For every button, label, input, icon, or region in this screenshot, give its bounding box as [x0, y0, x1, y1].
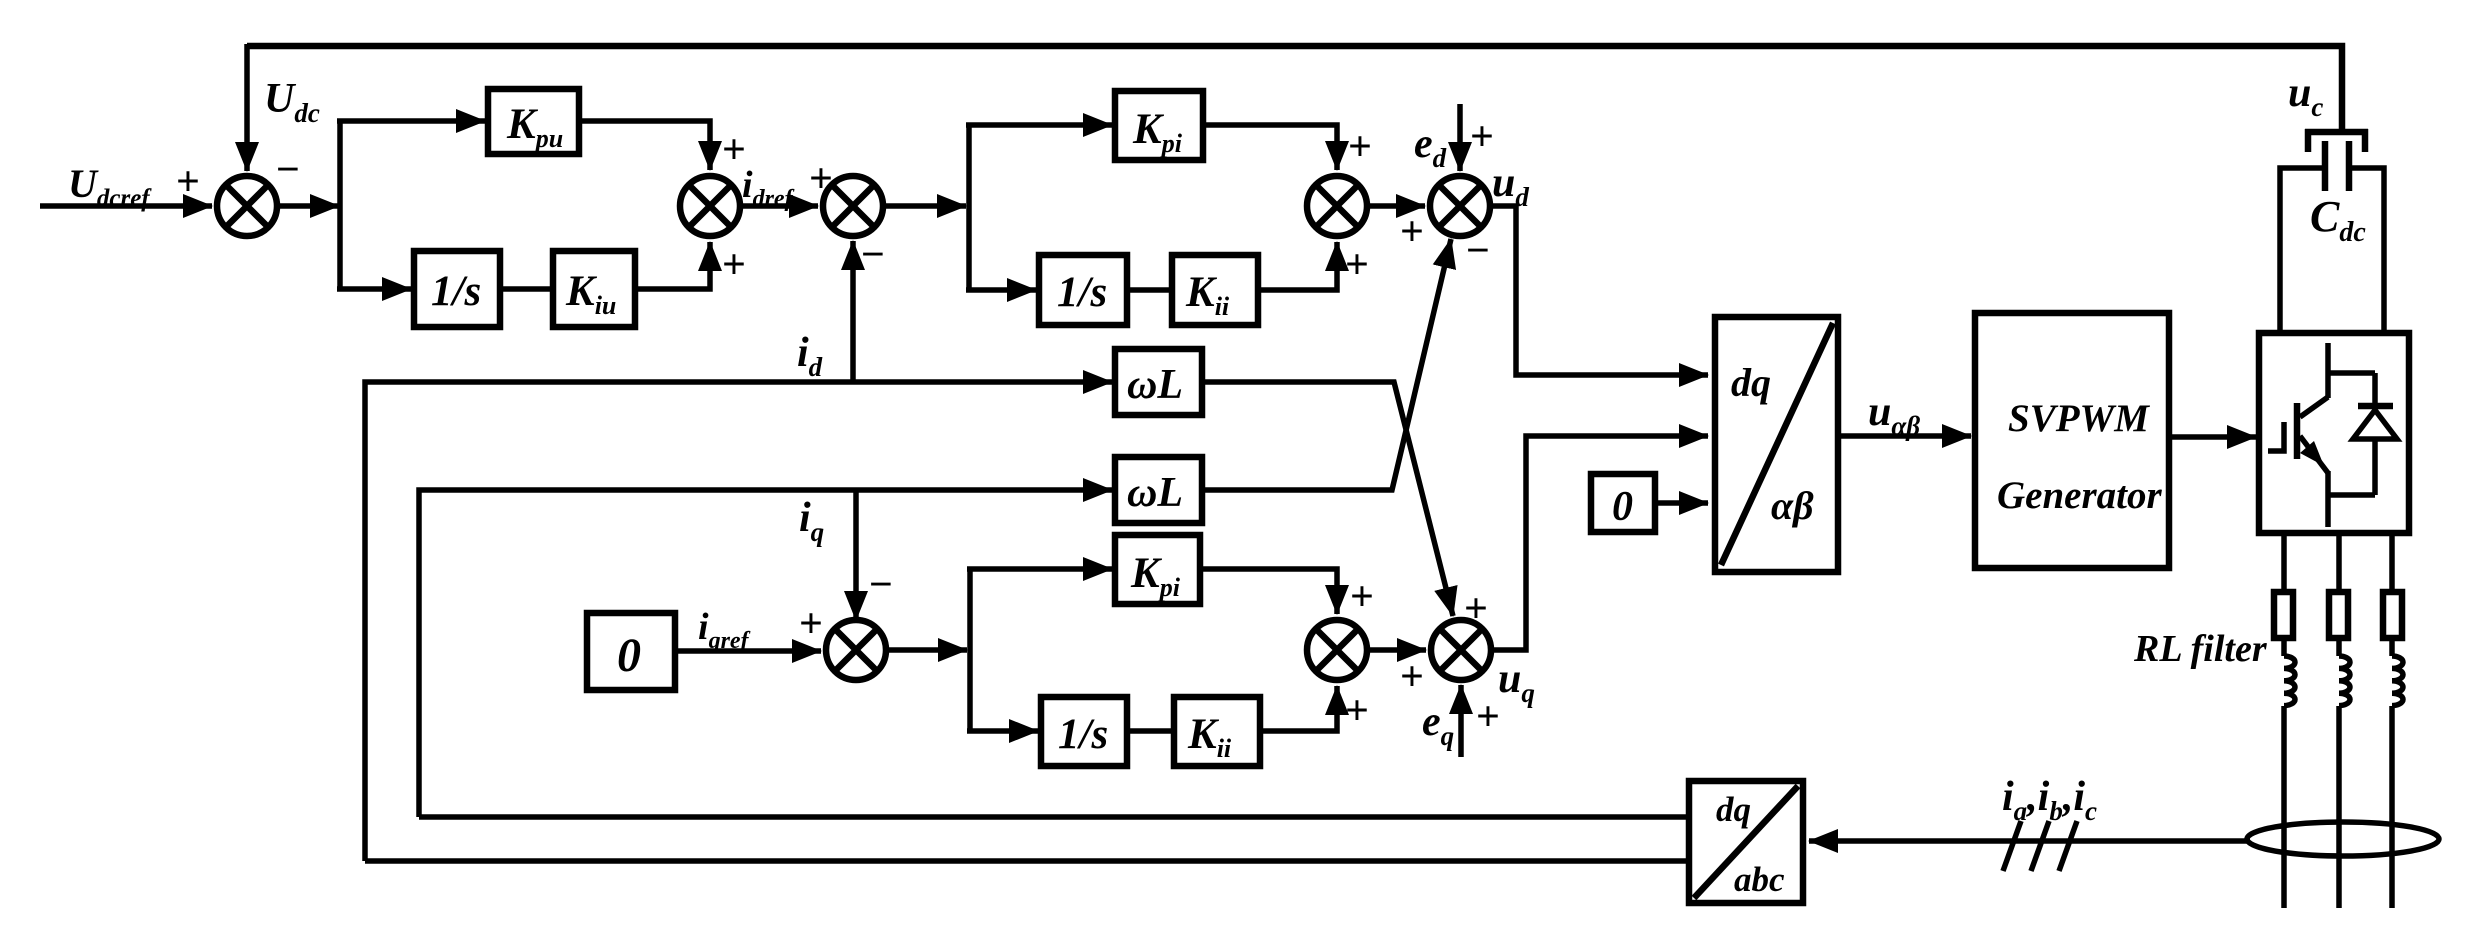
block SVPWM Generator — [1975, 313, 2169, 568]
wire Kii q output into S7 — [1260, 686, 1337, 731]
svg-text:dq: dq — [1731, 360, 1771, 405]
capacitor sense bracket — [2305, 129, 2368, 152]
wire branch to Kpu — [337, 118, 485, 124]
wire wL2 output diagonal into S5 — [1202, 239, 1451, 490]
wire q branch to 1/s q — [967, 728, 1038, 734]
wire d branch to 1/s — [966, 287, 1036, 293]
svg-text:−: − — [276, 147, 300, 193]
wire S2 output to S3 (idref) — [740, 203, 818, 209]
summing junction S3 — [823, 176, 883, 236]
svg-text:+: + — [1345, 242, 1369, 288]
svg-text:+: + — [1470, 114, 1494, 160]
wire phase leg c — [2389, 533, 2395, 594]
svg-text:+: + — [1350, 574, 1374, 620]
wire 1/s to Kiu — [500, 286, 553, 292]
wire U_dcref input arrow — [40, 203, 212, 209]
summing junction S6 — [826, 620, 886, 680]
wire S8 output up to dq block — [1491, 436, 1708, 650]
svg-text:+: + — [176, 159, 200, 205]
svg-text:+: + — [1476, 694, 1500, 740]
wire 1/s to Kii q — [1127, 728, 1174, 734]
block Kpi (d axis) — [1115, 91, 1203, 160]
wire S7 output to S8 — [1367, 647, 1426, 653]
svg-text:+: + — [1400, 209, 1424, 255]
svg-text:RL filter: RL filter — [2133, 628, 2268, 670]
wire resistor to inductor b — [2336, 638, 2342, 656]
diode D1 — [2328, 373, 2397, 495]
wire q branch to Kpi q — [967, 566, 1112, 572]
block theta reference — [1591, 474, 1655, 532]
wire dq abc lower output to id loop — [365, 858, 1689, 864]
wire Kpi output into S4 — [1203, 125, 1337, 170]
svg-text:1/s: 1/s — [431, 268, 481, 315]
svg-text:+: + — [722, 242, 746, 288]
svg-text:+: + — [799, 601, 823, 647]
block inverter bridge — [2259, 333, 2409, 533]
summing junction S4 — [1307, 176, 1367, 236]
wire eq input up into S8 — [1458, 685, 1464, 757]
svg-text:+: + — [1348, 124, 1372, 170]
svg-text:Generator: Generator — [1997, 474, 2162, 517]
block wL1 — [1115, 349, 1202, 415]
resistor Rb — [2329, 592, 2348, 638]
wire u_alphabeta to SVPWM — [1838, 433, 1971, 439]
wire d branch to Kpi — [966, 122, 1112, 128]
block wL2 — [1115, 457, 1202, 523]
wire S4 output to S5 — [1367, 203, 1425, 209]
wire top feedback uc line — [247, 46, 2342, 131]
wire dc bus right — [2349, 168, 2384, 336]
wire resistor to inductor a — [2281, 638, 2287, 656]
wire Kpu output into S2 — [579, 121, 710, 170]
svg-text:1/s: 1/s — [1058, 711, 1108, 758]
svg-text:αβ: αβ — [1771, 483, 1814, 528]
wire iq feedback row into wL2 — [419, 490, 1112, 817]
svg-text:abc: abc — [1734, 860, 1785, 899]
wire grid leg c — [2389, 706, 2395, 908]
resistor Rc — [2383, 592, 2402, 638]
wire current sense to dq abc — [1809, 838, 2250, 844]
wire dc bus left — [2280, 168, 2325, 336]
svg-text:ωL: ωL — [1127, 362, 1183, 408]
wire branch to 1/s — [337, 286, 411, 292]
wire branch vertical — [337, 121, 343, 289]
svg-text:SVPWM: SVPWM — [2008, 397, 2150, 440]
inductor Lb — [2339, 656, 2350, 706]
wire id feedback row into wL1 — [365, 382, 1112, 861]
wire q branch vertical — [967, 569, 973, 731]
wire 1/s to Kii d — [1127, 287, 1172, 293]
wire d branch vertical — [966, 125, 972, 290]
wire id tap up into S3 — [850, 241, 856, 382]
svg-text:ωL: ωL — [1127, 470, 1183, 516]
wire U_dc feedback drop into S1 — [244, 44, 250, 171]
wire ed input into S5 — [1457, 104, 1463, 171]
wire S3 output to d branch point — [883, 203, 966, 209]
slash marks iabc — [2003, 821, 2077, 871]
wire phase leg a — [2281, 533, 2287, 594]
svg-text:−: − — [861, 232, 885, 278]
svg-text:+: + — [1400, 654, 1424, 700]
svg-text:0: 0 — [1612, 484, 1633, 530]
wire phase leg b — [2336, 533, 2342, 594]
inductor La — [2284, 656, 2295, 706]
svg-text:1/s: 1/s — [1057, 269, 1107, 316]
block zero reference — [587, 613, 675, 690]
summing junction S2 — [680, 176, 740, 236]
block 1/s (d axis) — [1039, 255, 1127, 325]
block Kii (d axis) — [1172, 255, 1258, 325]
wire grid leg b — [2336, 706, 2342, 908]
wire dq abc upper output to iq loop — [419, 814, 1689, 820]
svg-text:−: − — [1466, 228, 1490, 274]
wire resistor to inductor c — [2389, 638, 2395, 656]
wire grid leg a — [2281, 706, 2287, 908]
svg-text:0: 0 — [617, 629, 641, 682]
resistor Ra — [2274, 592, 2293, 638]
wire iq tap down into S6 — [853, 490, 859, 620]
summing junction S5 ud — [1430, 176, 1490, 236]
block Kiu — [553, 251, 635, 327]
svg-text:+: + — [1464, 586, 1488, 632]
block Kpu — [488, 89, 579, 154]
wire Kii output into S4 — [1258, 242, 1337, 290]
wire S1 output to branch point — [277, 203, 339, 209]
svg-text:dq: dq — [1716, 790, 1751, 829]
summing junction S7 — [1307, 620, 1367, 680]
capacitor Cdc plates — [2325, 141, 2349, 191]
wire Kpi q output into S7 — [1200, 569, 1337, 614]
block 1/s (voltage loop) — [414, 251, 500, 327]
block dq to abc transform — [1689, 781, 1803, 903]
wire SVPWM to inverter — [2169, 434, 2256, 440]
block Kpi (q axis) — [1115, 535, 1200, 604]
wire S6 output to q branch point — [886, 647, 967, 653]
summing junction S8 uq — [1431, 620, 1491, 680]
wire theta into dq block — [1655, 500, 1708, 506]
block Kii (q axis) — [1174, 697, 1260, 766]
wire iqref into S6 — [675, 648, 821, 654]
block 1/s (q axis) — [1041, 697, 1127, 766]
summing junction S1 — [217, 176, 277, 236]
transistor Q1 IGBT — [2268, 343, 2375, 527]
inductor Lc — [2392, 656, 2403, 706]
svg-text:+: + — [1345, 688, 1369, 734]
wire wL1 output diagonal into S8 — [1202, 382, 1453, 616]
svg-text:−: − — [869, 562, 893, 608]
block dq to alphabeta transform — [1715, 317, 1838, 572]
wire S5 output down to dq block — [1490, 206, 1708, 375]
grid coupling ellipse — [2247, 822, 2439, 856]
wire Kiu output into S2 — [635, 242, 710, 289]
